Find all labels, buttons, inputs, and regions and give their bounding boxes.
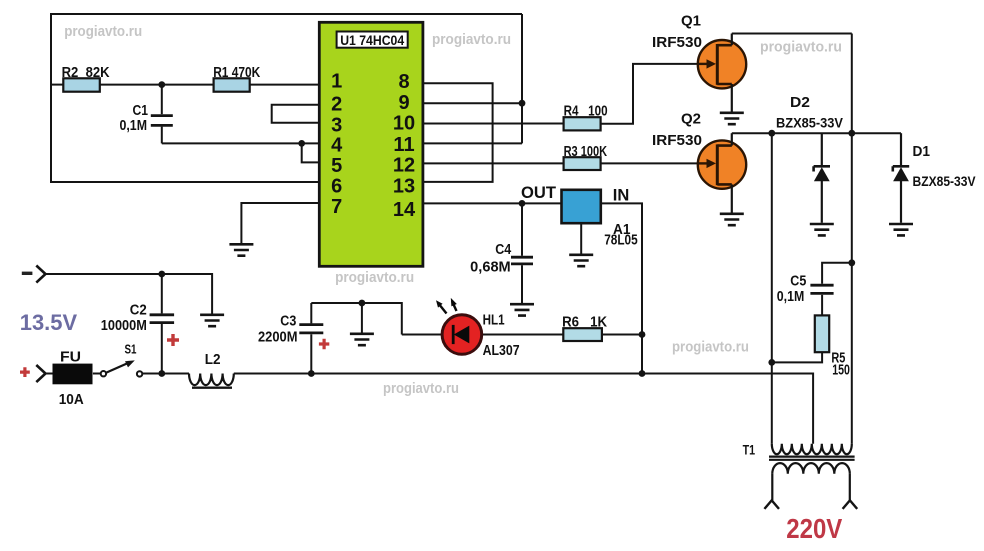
svg-text:R3 100K: R3 100K [564, 144, 608, 160]
transformer T1 primary winding [772, 444, 852, 454]
fuse FU 10A [53, 364, 92, 384]
svg-text:6: 6 [331, 176, 342, 198]
transistor Q2 IRF530 [698, 140, 746, 188]
wire minus rail [46, 274, 213, 314]
node junction R6 A1 [639, 331, 646, 338]
svg-text:0,68M: 0,68M [470, 260, 511, 276]
svg-text:BZX85-33V: BZX85-33V [913, 173, 977, 189]
svg-text:C2: C2 [130, 302, 147, 318]
svg-text:Q2: Q2 [681, 110, 701, 127]
ground A1 [569, 255, 593, 266]
svg-text:14: 14 [393, 199, 416, 221]
node junction C3 ground [359, 300, 366, 307]
node output terminal right [843, 500, 858, 509]
svg-text:OUT: OUT [521, 184, 556, 202]
ground D2 [810, 224, 834, 235]
wire left rail [50, 13, 52, 183]
resistor R5 [815, 315, 829, 352]
wire R1 to pin1 [250, 84, 320, 86]
diode D2 zener [814, 133, 830, 223]
wire ground stub C3 [361, 303, 363, 333]
resistor R6 [563, 328, 602, 341]
node Q2 drain left [768, 130, 775, 137]
capacitor C5 [810, 263, 851, 316]
wire R4 to Q1 gate [601, 64, 703, 124]
wire secondary left lead [771, 474, 773, 501]
node junction C2 top [158, 271, 165, 278]
diode D1 zener [893, 133, 909, 223]
svg-text:U1 74HC04: U1 74HC04 [340, 33, 404, 48]
wire pin14 to A1 OUT [423, 202, 562, 204]
svg-text:progiavto.ru: progiavto.ru [760, 40, 842, 56]
label plus C2 [167, 334, 179, 346]
wire pin12 to R3 [423, 162, 564, 164]
svg-text:C1: C1 [133, 103, 149, 119]
ground D1 [889, 224, 913, 235]
ground pin7 [229, 244, 253, 255]
svg-text:progiavto.ru: progiavto.ru [64, 24, 142, 40]
svg-text:9: 9 [398, 92, 409, 114]
wire Q1 top rail [732, 33, 852, 35]
wire secondary right lead [849, 474, 851, 501]
svg-text:progiavto.ru: progiavto.ru [383, 381, 459, 397]
ground C4 [510, 304, 534, 315]
wire right rail vertical [851, 34, 853, 444]
svg-text:0,1M: 0,1M [777, 289, 805, 305]
wire top rail [51, 13, 522, 15]
svg-text:4: 4 [331, 135, 343, 157]
ground C3 [350, 334, 374, 345]
svg-text:D1: D1 [913, 144, 931, 160]
svg-text:T1: T1 [743, 441, 756, 457]
node junction C2 bottom [158, 370, 165, 377]
node junction C3 bottom [308, 370, 315, 377]
capacitor C2 [150, 274, 175, 374]
svg-text:C3: C3 [280, 313, 296, 329]
transformer T1 core [769, 457, 855, 460]
wire R3 to Q2 gate [601, 162, 703, 164]
transformer T1 secondary winding [772, 463, 850, 474]
label minus sign [22, 272, 33, 275]
svg-text:IRF530: IRF530 [652, 34, 702, 51]
transistor Q1 IRF530 [698, 40, 746, 88]
wire pin10 to R4 [423, 123, 564, 125]
capacitor C4 [511, 203, 533, 303]
svg-text:C5: C5 [790, 273, 806, 289]
wire fuse to S1 [93, 373, 101, 375]
svg-text:10: 10 [393, 113, 415, 135]
svg-text:Q1: Q1 [681, 12, 701, 29]
wire left drain rail [771, 133, 773, 444]
svg-text:R4 100: R4 100 [564, 103, 608, 119]
svg-text:13.5V: 13.5V [20, 310, 77, 335]
node terminal plus [36, 365, 45, 382]
wire C1 to pin4 [162, 142, 320, 144]
wire Q2 drain line [732, 132, 901, 134]
svg-text:IRF530: IRF530 [652, 132, 702, 149]
wire pin11 stub [423, 142, 522, 144]
wire R5 to left rail [772, 352, 822, 362]
svg-text:10A: 10A [59, 391, 84, 408]
switch S1 [101, 360, 143, 376]
svg-text:7: 7 [331, 196, 342, 218]
wire R2 to R1 [100, 84, 214, 86]
label plus sign input [20, 367, 30, 377]
svg-text:0,1M: 0,1M [120, 118, 148, 134]
svg-text:2: 2 [331, 93, 342, 115]
svg-text:11: 11 [393, 134, 414, 156]
op-amp U1 74HC04 IC body [319, 22, 423, 266]
svg-text:HL1: HL1 [483, 313, 505, 329]
svg-text:1: 1 [331, 71, 342, 93]
node junction pin4/pin5 [298, 140, 305, 147]
resistor R2 [63, 78, 100, 91]
node junction R2/R1/C1 [158, 81, 165, 88]
capacitor C3 [299, 303, 323, 374]
wire bottom rail to pin6 [51, 181, 320, 183]
wire A1 IN to rail [601, 203, 642, 373]
resistor R4 [564, 117, 601, 130]
svg-text:FU: FU [60, 348, 81, 365]
node output terminal left [764, 500, 779, 509]
label plus C3 [319, 339, 329, 349]
resistor R1 [214, 78, 250, 91]
wire pin8 pin13 loop [423, 83, 493, 182]
wire pin7 to ground [241, 203, 320, 243]
svg-text:progiavto.ru: progiavto.ru [672, 340, 749, 356]
svg-text:IN: IN [613, 187, 630, 205]
wire pin9/11 vertical [521, 14, 523, 143]
svg-text:13: 13 [393, 176, 415, 198]
node junction pin9 [519, 100, 526, 107]
svg-text:2200M: 2200M [258, 329, 298, 345]
svg-text:3: 3 [331, 114, 342, 136]
svg-text:5: 5 [331, 155, 342, 177]
svg-text:8: 8 [398, 71, 409, 93]
wire pin4 to pin5 [302, 143, 320, 162]
svg-text:R1 470K: R1 470K [213, 65, 260, 81]
wire R2 left lead [51, 84, 63, 86]
wire C3 top line [311, 303, 402, 335]
node terminal minus [36, 266, 45, 283]
svg-text:12: 12 [393, 155, 415, 177]
node OUT junction [519, 200, 526, 207]
svg-text:R6 1K: R6 1K [562, 314, 607, 330]
svg-text:AL307: AL307 [483, 343, 520, 359]
LED HL1 AL307 [436, 298, 482, 354]
svg-text:C4: C4 [495, 242, 511, 258]
capacitor C1 [151, 85, 173, 144]
node C5 top junction [848, 259, 855, 266]
wire S1 to L2 [142, 373, 189, 375]
wire main plus rail [234, 374, 813, 444]
node R5 left rail [768, 359, 775, 366]
svg-text:progiavto.ru: progiavto.ru [335, 270, 414, 286]
wire Q2 drain to node [731, 133, 733, 145]
svg-text:150: 150 [832, 362, 850, 378]
wire pin2 pin3 loop [272, 105, 320, 123]
inductor L2 [189, 374, 234, 388]
svg-text:10000M: 10000M [101, 318, 147, 334]
ground Q1 [720, 113, 744, 124]
wire R6 to A1 IN vertical [602, 334, 642, 336]
node Q2 drain right [848, 130, 855, 137]
svg-text:78L05: 78L05 [604, 232, 638, 248]
svg-text:BZX85-33V: BZX85-33V [776, 115, 844, 131]
wire plus to fuse [46, 373, 53, 375]
wire Q1 drain to top [731, 34, 733, 46]
wire A1 ground lead [580, 223, 582, 253]
resistor R3 [564, 157, 601, 170]
ground minus input [200, 315, 224, 326]
U1 label box [337, 32, 408, 48]
svg-text:R2 82K: R2 82K [62, 65, 110, 81]
svg-text:S1: S1 [125, 343, 137, 357]
wire pin9 stub [423, 102, 522, 104]
wire Q2 source [731, 184, 733, 212]
ground Q2 [720, 214, 744, 225]
wire LED line [402, 334, 564, 336]
svg-text:progiavto.ru: progiavto.ru [432, 32, 511, 48]
voltage regulator A1 78L05 [562, 190, 601, 223]
svg-text:D2: D2 [790, 95, 810, 111]
svg-text:L2: L2 [205, 352, 221, 368]
svg-text:220V: 220V [786, 513, 843, 544]
node junction A1 IN rail [639, 370, 646, 377]
wire Q1 source [731, 84, 733, 112]
